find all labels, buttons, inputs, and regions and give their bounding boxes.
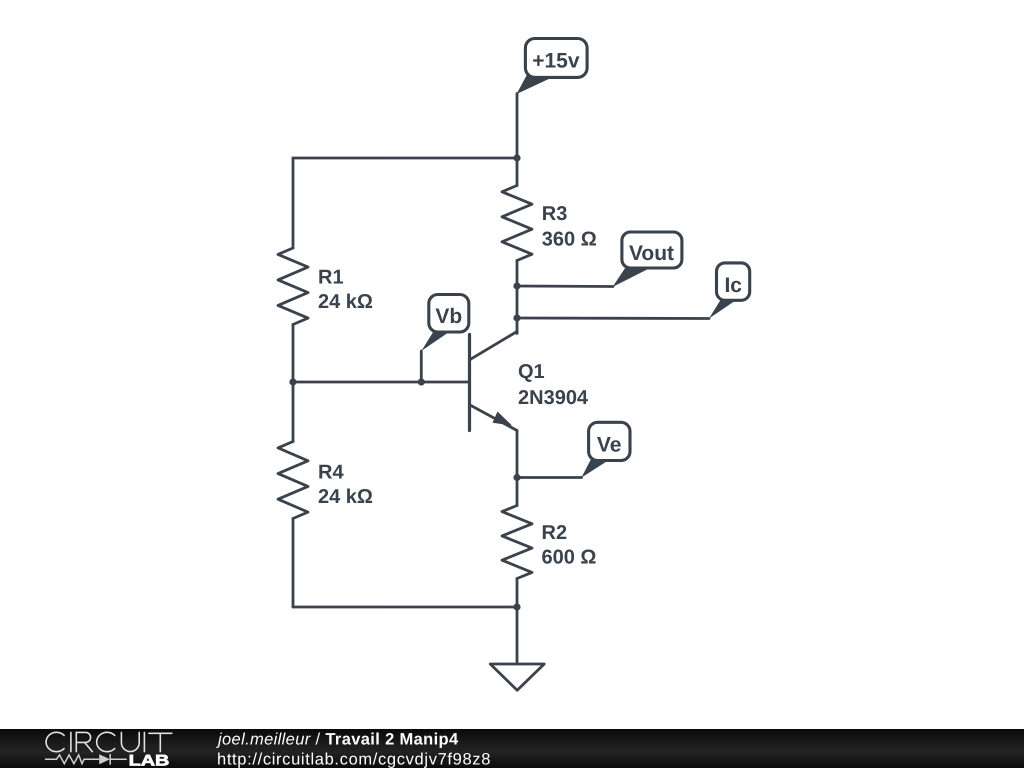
- logo resistor-diode: [45, 754, 127, 765]
- wire collector vertical: [516, 286, 519, 334]
- svg-text:R4: R4: [318, 462, 344, 484]
- svg-text:Vout: Vout: [629, 242, 674, 265]
- resistor R2: [502, 506, 532, 579]
- svg-text:Q1: Q1: [518, 361, 545, 383]
- svg-text:joel.meilleur / Travail 2 Mani: joel.meilleur / Travail 2 Manip4: [216, 731, 459, 749]
- wire Ic horizontal: [517, 317, 709, 320]
- wire R4 top lead: [292, 382, 295, 442]
- ground: [490, 664, 544, 690]
- resistor R3: [502, 186, 532, 261]
- svg-text:24 kΩ: 24 kΩ: [318, 291, 373, 313]
- transistor Q1 collector diagonal: [470, 332, 517, 360]
- wire R2 bottom lead: [516, 579, 519, 608]
- svg-text:2N3904: 2N3904: [518, 387, 589, 409]
- junction node ground: [513, 603, 520, 610]
- flag +15v: [517, 39, 588, 95]
- svg-text:+15v: +15v: [532, 50, 580, 73]
- svg-text:Ve: Ve: [597, 433, 622, 456]
- wire base horizontal: [293, 381, 470, 384]
- junction node Ic: [513, 314, 520, 321]
- wire Vb stub: [420, 351, 423, 382]
- wire ground stub: [516, 607, 519, 664]
- wire emitter vertical: [516, 431, 519, 478]
- wire bottom horizontal: [293, 606, 517, 609]
- wire R2 top lead: [516, 478, 519, 506]
- wire R1 bottom lead: [292, 325, 295, 383]
- wire Vout horizontal: [517, 285, 613, 288]
- junction node Vout: [513, 282, 520, 289]
- flag Ic: [709, 263, 750, 319]
- svg-text:LAB: LAB: [129, 752, 170, 768]
- resistor R1: [278, 248, 308, 325]
- wire top horizontal: [293, 157, 517, 160]
- svg-text:R1: R1: [318, 266, 344, 288]
- svg-text:Ic: Ic: [724, 274, 742, 297]
- wire R3 top lead: [516, 158, 519, 186]
- flag Ve: [581, 422, 630, 477]
- junction node Ve: [513, 474, 520, 481]
- svg-text:Vb: Vb: [435, 305, 462, 328]
- wire R1 top lead: [292, 158, 295, 248]
- junction node Vb: [418, 378, 425, 385]
- svg-text:360 Ω: 360 Ω: [542, 229, 597, 251]
- junction node base left: [289, 378, 296, 385]
- svg-text:http://circuitlab.com/cgcvdjv7: http://circuitlab.com/cgcvdjv7f98z8: [217, 751, 491, 768]
- wire R3 bottom lead: [516, 261, 519, 287]
- logo CIRCUIT: [46, 732, 172, 751]
- svg-text:24 kΩ: 24 kΩ: [318, 486, 373, 508]
- svg-text:600 Ω: 600 Ω: [542, 547, 597, 569]
- wire top feed: [516, 94, 519, 159]
- wire Ve horizontal: [517, 476, 582, 479]
- transistor Q1 base bar: [468, 335, 471, 431]
- flag Vout: [613, 232, 682, 287]
- transistor Q1 emitter diagonal: [470, 405, 517, 431]
- svg-text:R2: R2: [542, 522, 568, 544]
- transistor Q1 emitter arrow: [493, 412, 513, 426]
- svg-text:R3: R3: [542, 203, 568, 225]
- wire R4 bottom lead: [292, 519, 295, 608]
- resistor R4: [278, 442, 308, 519]
- flag Vb: [421, 295, 469, 352]
- junction node dot at +15v rail: [513, 154, 520, 161]
